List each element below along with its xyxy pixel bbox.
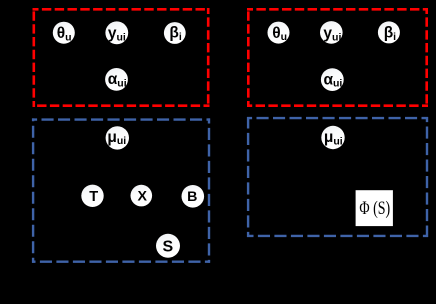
svg-text:X: X bbox=[137, 189, 147, 205]
svg-text:S: S bbox=[162, 238, 173, 255]
svg-text:B: B bbox=[187, 189, 197, 205]
svg-text:T: T bbox=[89, 189, 98, 205]
svg-text:Φ (S): Φ (S) bbox=[359, 199, 390, 219]
